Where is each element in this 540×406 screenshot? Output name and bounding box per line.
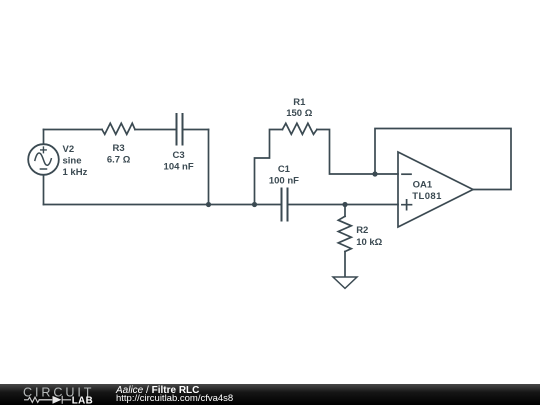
svg-text:C3: C3 — [173, 150, 185, 161]
capacitor C3 — [177, 114, 183, 145]
svg-text:R1: R1 — [293, 97, 306, 108]
footer bar — [0, 384, 540, 406]
wire top rail to R3 — [44, 129, 103, 131]
svg-text:104 nF: 104 nF — [164, 161, 194, 172]
wire C3 to corner — [183, 129, 209, 131]
voltage source V2 plus — [41, 147, 47, 153]
svg-text:150 Ω: 150 Ω — [286, 108, 312, 119]
wire C1 to op-amp plus input — [288, 204, 399, 206]
svg-text:1 kHz: 1 kHz — [63, 167, 88, 178]
wire V2 bottom lead — [43, 175, 45, 205]
wire R1 right to minus input — [317, 130, 398, 175]
op-amp U1 triangle — [398, 152, 473, 227]
svg-text:V2: V2 — [63, 144, 75, 155]
footer url — [116, 393, 233, 404]
svg-text:C1: C1 — [278, 164, 291, 175]
svg-text:OA1: OA1 — [413, 180, 433, 191]
svg-text:100 nF: 100 nF — [269, 175, 299, 186]
voltage source V2 sine — [35, 153, 51, 165]
resistor R3 — [102, 123, 135, 134]
svg-text:R3: R3 — [113, 143, 125, 154]
svg-text:sine: sine — [63, 156, 82, 167]
svg-text:6.7 Ω: 6.7 Ω — [107, 154, 131, 165]
resistor R1 — [282, 123, 317, 134]
junction node at R1 branch — [252, 202, 257, 207]
wire node to R1 left (step) — [255, 130, 283, 205]
junction node at feedback/minus — [372, 171, 377, 176]
junction node at C3 drop — [206, 202, 211, 207]
wire V2 top lead — [43, 130, 45, 145]
wire bottom rail — [44, 204, 282, 206]
op-amp minus symbol — [402, 173, 411, 175]
voltage source V2 minus — [40, 168, 46, 170]
wire R2 bottom lead — [344, 252, 346, 277]
CircuitLab logo — [0, 384, 110, 406]
wire R2 top lead — [344, 205, 346, 217]
capacitor C1 — [282, 189, 288, 221]
voltage source V2 circle — [28, 144, 59, 175]
junction node at R2 — [342, 202, 347, 207]
wire R3 to C3 — [135, 129, 177, 131]
wire corner down to bottom rail — [208, 130, 210, 205]
resistor R2 — [338, 216, 351, 251]
svg-text:TL081: TL081 — [412, 191, 442, 202]
ground — [333, 277, 357, 288]
wire feedback loop — [375, 129, 511, 190]
op-amp plus symbol — [402, 200, 412, 210]
footer title — [116, 385, 199, 396]
svg-text:R2: R2 — [356, 225, 368, 236]
svg-text:LAB: LAB — [72, 395, 93, 405]
svg-text:10 kΩ: 10 kΩ — [356, 237, 382, 248]
